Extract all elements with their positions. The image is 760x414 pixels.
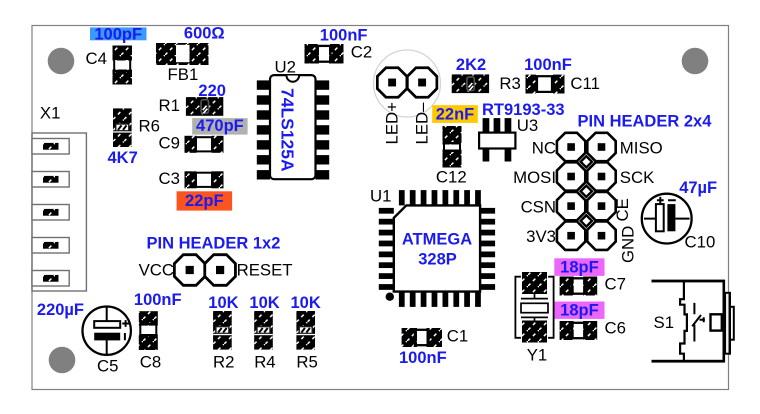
svg-text:18pF: 18pF <box>560 259 599 277</box>
svg-text:NC: NC <box>532 138 556 157</box>
svg-text:220: 220 <box>198 82 226 100</box>
svg-text:C8: C8 <box>140 353 161 372</box>
svg-text:U2: U2 <box>275 58 296 77</box>
svg-text:X1: X1 <box>40 104 61 123</box>
value 22pF of C3 <box>177 191 233 210</box>
svg-text:RT9193-33: RT9193-33 <box>482 101 565 119</box>
svg-text:CE: CE <box>613 198 632 221</box>
svg-text:R4: R4 <box>254 353 275 372</box>
svg-text:C7: C7 <box>605 275 626 294</box>
svg-text:S1: S1 <box>654 313 675 332</box>
svg-text:3V3: 3V3 <box>526 227 556 246</box>
capacitor C1 <box>402 328 442 347</box>
svg-text:470pF: 470pF <box>196 117 244 135</box>
svg-text:Y1: Y1 <box>527 345 548 364</box>
svg-text:R1: R1 <box>159 96 180 115</box>
capacitor C5 220uF <box>83 307 131 355</box>
svg-text:C1: C1 <box>447 327 468 346</box>
capacitor C7 <box>560 277 598 296</box>
mcu U1 ATMEGA328P <box>379 190 495 307</box>
pin VCC <box>174 255 205 286</box>
resistor R2 <box>213 311 232 350</box>
op-amp U2 74LS125A <box>257 75 329 179</box>
svg-text:VCC: VCC <box>139 261 174 280</box>
capacitor C8 <box>139 311 158 350</box>
svg-text:MISO: MISO <box>620 138 663 157</box>
pin MISO <box>587 133 615 161</box>
svg-text:C6: C6 <box>605 319 626 338</box>
svg-text:10K: 10K <box>208 294 238 312</box>
mounting hole top-left <box>48 48 75 75</box>
svg-text:SCK: SCK <box>620 168 655 187</box>
LED body outline <box>374 50 441 117</box>
svg-text:LED+: LED+ <box>383 102 402 144</box>
ferrite bead FB1 <box>156 43 209 65</box>
svg-text:C5: C5 <box>97 357 118 376</box>
svg-text:CSN: CSN <box>521 197 556 216</box>
svg-text:600Ω: 600Ω <box>184 25 225 43</box>
svg-text:R5: R5 <box>296 353 317 372</box>
pin NC <box>557 133 585 161</box>
svg-text:10K: 10K <box>249 294 279 312</box>
pin GND <box>587 222 615 250</box>
svg-text:PIN HEADER 1x2: PIN HEADER 1x2 <box>147 235 281 253</box>
connector X1 <box>32 133 86 291</box>
svg-text:R3: R3 <box>499 74 520 93</box>
svg-text:18pF: 18pF <box>560 302 599 320</box>
pin 1 marker of U1 <box>386 293 394 301</box>
pin SCK <box>587 162 615 190</box>
pin MOSI <box>557 162 585 190</box>
svg-text:C2: C2 <box>351 43 372 62</box>
pad LED- <box>407 68 437 98</box>
pin 3V3 <box>557 222 585 250</box>
svg-text:C12: C12 <box>436 168 467 187</box>
value 100pF of C4 <box>90 26 147 44</box>
svg-text:4K7: 4K7 <box>108 149 138 167</box>
svg-text:10K: 10K <box>291 294 321 312</box>
junction diamonds of header <box>581 156 592 226</box>
svg-text:100pF: 100pF <box>94 26 142 44</box>
svg-text:220µF: 220µF <box>37 301 84 319</box>
svg-text:C10: C10 <box>685 233 716 252</box>
svg-text:C3: C3 <box>159 169 180 188</box>
svg-text:PIN HEADER 2x4: PIN HEADER 2x4 <box>578 113 713 131</box>
regulator U3 RT9193-33 <box>479 118 515 161</box>
svg-text:C11: C11 <box>570 74 600 93</box>
svg-text:LED–: LED– <box>413 102 432 145</box>
value 22nF of C12 <box>432 105 478 123</box>
svg-text:47µF: 47µF <box>679 179 717 197</box>
svg-text:FB1: FB1 <box>168 65 199 84</box>
svg-text:22pF: 22pF <box>185 192 224 210</box>
capacitor C10 47uF <box>642 194 692 244</box>
svg-text:100nF: 100nF <box>524 56 572 74</box>
value 470pF of C9 <box>192 117 247 135</box>
svg-text:C9: C9 <box>159 134 180 153</box>
svg-text:ATMEGA: ATMEGA <box>402 231 472 249</box>
capacitor C6 <box>560 321 598 340</box>
svg-text:R2: R2 <box>213 353 234 372</box>
switch S1 <box>652 280 734 363</box>
svg-text:RESET: RESET <box>237 261 293 280</box>
pin CSN <box>557 192 585 220</box>
resistor R1 <box>186 97 223 116</box>
svg-text:100nF: 100nF <box>134 291 182 309</box>
capacitor C4 <box>113 46 133 85</box>
svg-text:U1: U1 <box>370 186 391 205</box>
mounting hole top-right <box>682 48 709 75</box>
capacitor C11 <box>526 75 565 94</box>
value 18pF of C7 <box>554 258 604 276</box>
svg-text:328P: 328P <box>418 250 457 268</box>
pin RESET <box>205 255 236 286</box>
capacitor C3 <box>185 171 224 188</box>
svg-text:R6: R6 <box>139 117 160 136</box>
crystal Y1 <box>515 272 553 343</box>
pin CE <box>587 192 615 220</box>
capacitor C2 <box>305 44 344 64</box>
resistor R6 <box>113 108 132 147</box>
svg-text:GND: GND <box>619 226 638 263</box>
pad LED+ <box>377 68 407 98</box>
mounting hole bottom-left <box>49 347 76 374</box>
svg-text:2K2: 2K2 <box>456 56 486 74</box>
capacitor C12 <box>443 126 462 168</box>
svg-text:MOSI: MOSI <box>513 168 556 187</box>
svg-text:100nF: 100nF <box>320 27 368 45</box>
value 18pF of C6 <box>554 302 604 320</box>
svg-text:74LS125A: 74LS125A <box>278 88 298 172</box>
capacitor C9 <box>185 136 224 153</box>
resistor R3 <box>452 74 489 93</box>
resistor R5 <box>296 311 315 350</box>
svg-text:22nF: 22nF <box>436 105 475 123</box>
svg-text:100nF: 100nF <box>399 349 447 367</box>
svg-text:C4: C4 <box>86 49 107 68</box>
resistor R4 <box>254 311 273 350</box>
